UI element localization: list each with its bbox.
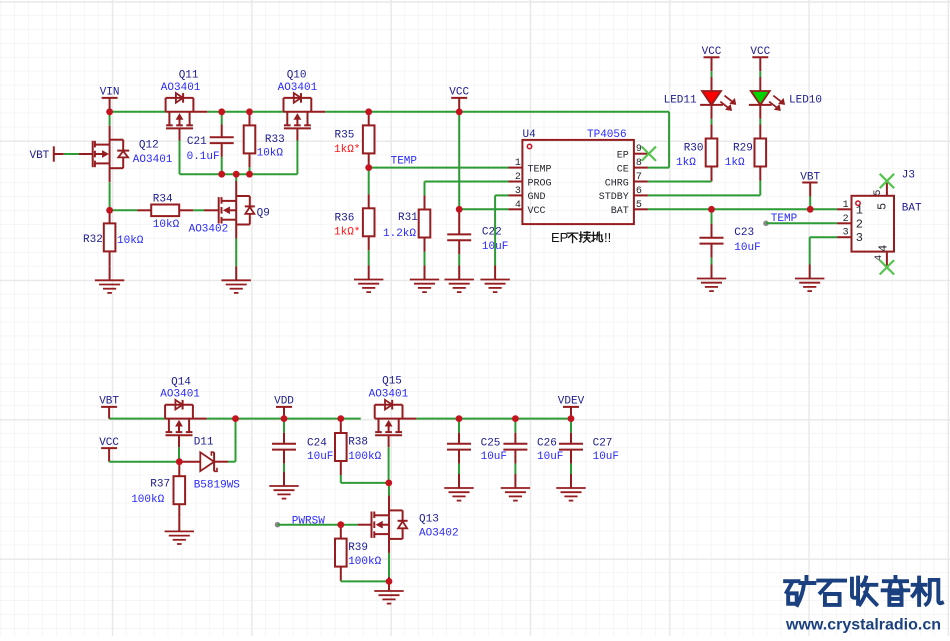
svg-text:TEMP: TEMP [771, 213, 798, 225]
svg-text:www.crystalradio.cn: www.crystalradio.cn [785, 617, 941, 634]
svg-text:R33: R33 [265, 134, 285, 146]
svg-text:1: 1 [856, 203, 863, 217]
svg-text:VBT: VBT [29, 150, 49, 162]
svg-text:1kΩ*: 1kΩ* [334, 227, 360, 239]
svg-text:TEMP: TEMP [528, 164, 552, 175]
svg-text:Q10: Q10 [287, 70, 307, 82]
svg-text:C24: C24 [307, 437, 327, 449]
svg-text:C27: C27 [593, 437, 613, 449]
svg-text:TEMP: TEMP [391, 156, 418, 168]
svg-text:J3: J3 [902, 170, 915, 182]
svg-text:R37: R37 [150, 479, 170, 491]
svg-text:C21: C21 [187, 136, 207, 148]
svg-text:VCC: VCC [449, 87, 469, 99]
svg-text:R38: R38 [348, 437, 368, 449]
svg-text:LED11: LED11 [664, 95, 697, 107]
svg-text:!!: !! [604, 230, 611, 245]
svg-text:TP4056: TP4056 [587, 129, 627, 141]
svg-text:1: 1 [843, 200, 849, 211]
svg-text:AO3402: AO3402 [419, 528, 459, 540]
svg-text:BAT: BAT [902, 203, 922, 215]
svg-text:R39: R39 [348, 542, 368, 554]
svg-text:VDD: VDD [274, 396, 294, 408]
svg-text:9: 9 [636, 144, 642, 155]
svg-text:R32: R32 [83, 234, 103, 246]
svg-text:C25: C25 [481, 437, 501, 449]
svg-text:5: 5 [873, 190, 884, 196]
svg-text:LED10: LED10 [789, 95, 822, 107]
svg-text:R31: R31 [398, 212, 418, 224]
svg-text:D11: D11 [194, 436, 214, 448]
svg-text:Q9: Q9 [257, 208, 270, 220]
svg-text:AO3401: AO3401 [369, 389, 409, 401]
svg-text:2: 2 [856, 217, 863, 231]
svg-text:AO3401: AO3401 [160, 389, 200, 401]
svg-text:PROG: PROG [528, 178, 552, 189]
svg-text:100kΩ: 100kΩ [348, 556, 381, 568]
svg-text:3: 3 [843, 228, 849, 239]
svg-text:2: 2 [843, 214, 849, 225]
svg-text:VCC: VCC [750, 46, 770, 58]
svg-text:C26: C26 [537, 437, 557, 449]
svg-text:10kΩ: 10kΩ [153, 219, 180, 231]
svg-text:C22: C22 [482, 227, 502, 239]
svg-text:U4: U4 [523, 129, 537, 141]
svg-text:0.1uF: 0.1uF [187, 151, 220, 163]
svg-text:3: 3 [856, 231, 863, 245]
svg-text:PWRSW: PWRSW [292, 515, 325, 527]
svg-text:10uF: 10uF [481, 451, 507, 463]
svg-text:10uF: 10uF [307, 451, 333, 463]
svg-text:8: 8 [636, 158, 642, 169]
svg-text:R35: R35 [335, 129, 355, 141]
svg-text:CE: CE [617, 164, 629, 175]
svg-text:AO3401: AO3401 [278, 82, 318, 94]
svg-text:Q13: Q13 [419, 513, 439, 525]
svg-text:10kΩ: 10kΩ [257, 147, 284, 159]
svg-text:VCC: VCC [99, 437, 119, 449]
svg-text:3: 3 [515, 186, 521, 197]
svg-text:10uF: 10uF [593, 451, 619, 463]
svg-text:VBT: VBT [99, 396, 119, 408]
svg-text:4: 4 [515, 200, 521, 211]
svg-text:C23: C23 [734, 227, 754, 239]
svg-text:100kΩ: 100kΩ [348, 451, 381, 463]
svg-text:R36: R36 [335, 213, 355, 225]
svg-text:VIN: VIN [100, 87, 120, 99]
svg-text:AO3401: AO3401 [161, 82, 201, 94]
svg-text:Q11: Q11 [179, 70, 199, 82]
svg-text:10uF: 10uF [734, 242, 760, 254]
svg-text:1: 1 [515, 158, 521, 169]
svg-text:1.2kΩ: 1.2kΩ [383, 228, 416, 240]
svg-text:Q14: Q14 [171, 377, 191, 389]
svg-text:6: 6 [636, 186, 642, 197]
svg-text:AO3402: AO3402 [189, 223, 229, 235]
svg-text:BAT: BAT [611, 206, 629, 217]
svg-text:100kΩ: 100kΩ [131, 494, 164, 506]
svg-text:R30: R30 [684, 143, 704, 155]
svg-text:CHRG: CHRG [605, 178, 629, 189]
svg-text:STDBY: STDBY [599, 192, 629, 203]
svg-text:1kΩ*: 1kΩ* [334, 144, 360, 156]
svg-text:5: 5 [636, 200, 642, 211]
svg-text:R29: R29 [733, 143, 753, 155]
svg-text:2: 2 [515, 172, 521, 183]
svg-text:10uF: 10uF [537, 451, 563, 463]
svg-text:R34: R34 [153, 193, 173, 205]
svg-text:10kΩ: 10kΩ [117, 235, 144, 247]
svg-text:1kΩ: 1kΩ [725, 157, 745, 169]
svg-text:VCC: VCC [702, 46, 722, 58]
svg-text:4: 4 [874, 255, 885, 261]
svg-text:GND: GND [528, 192, 546, 203]
svg-text:5: 5 [876, 203, 890, 210]
svg-text:VDEV: VDEV [558, 396, 585, 408]
svg-text:VBT: VBT [800, 171, 820, 183]
svg-text:Q15: Q15 [382, 376, 402, 388]
svg-text:Q12: Q12 [139, 140, 159, 152]
svg-text:7: 7 [636, 172, 642, 183]
svg-text:VCC: VCC [528, 206, 546, 217]
svg-text:1kΩ: 1kΩ [676, 157, 696, 169]
svg-text:B5819WS: B5819WS [194, 480, 241, 492]
svg-text:EP: EP [551, 230, 568, 245]
svg-text:AO3401: AO3401 [133, 154, 173, 166]
svg-text:4: 4 [877, 245, 891, 252]
svg-text:EP: EP [617, 151, 629, 162]
